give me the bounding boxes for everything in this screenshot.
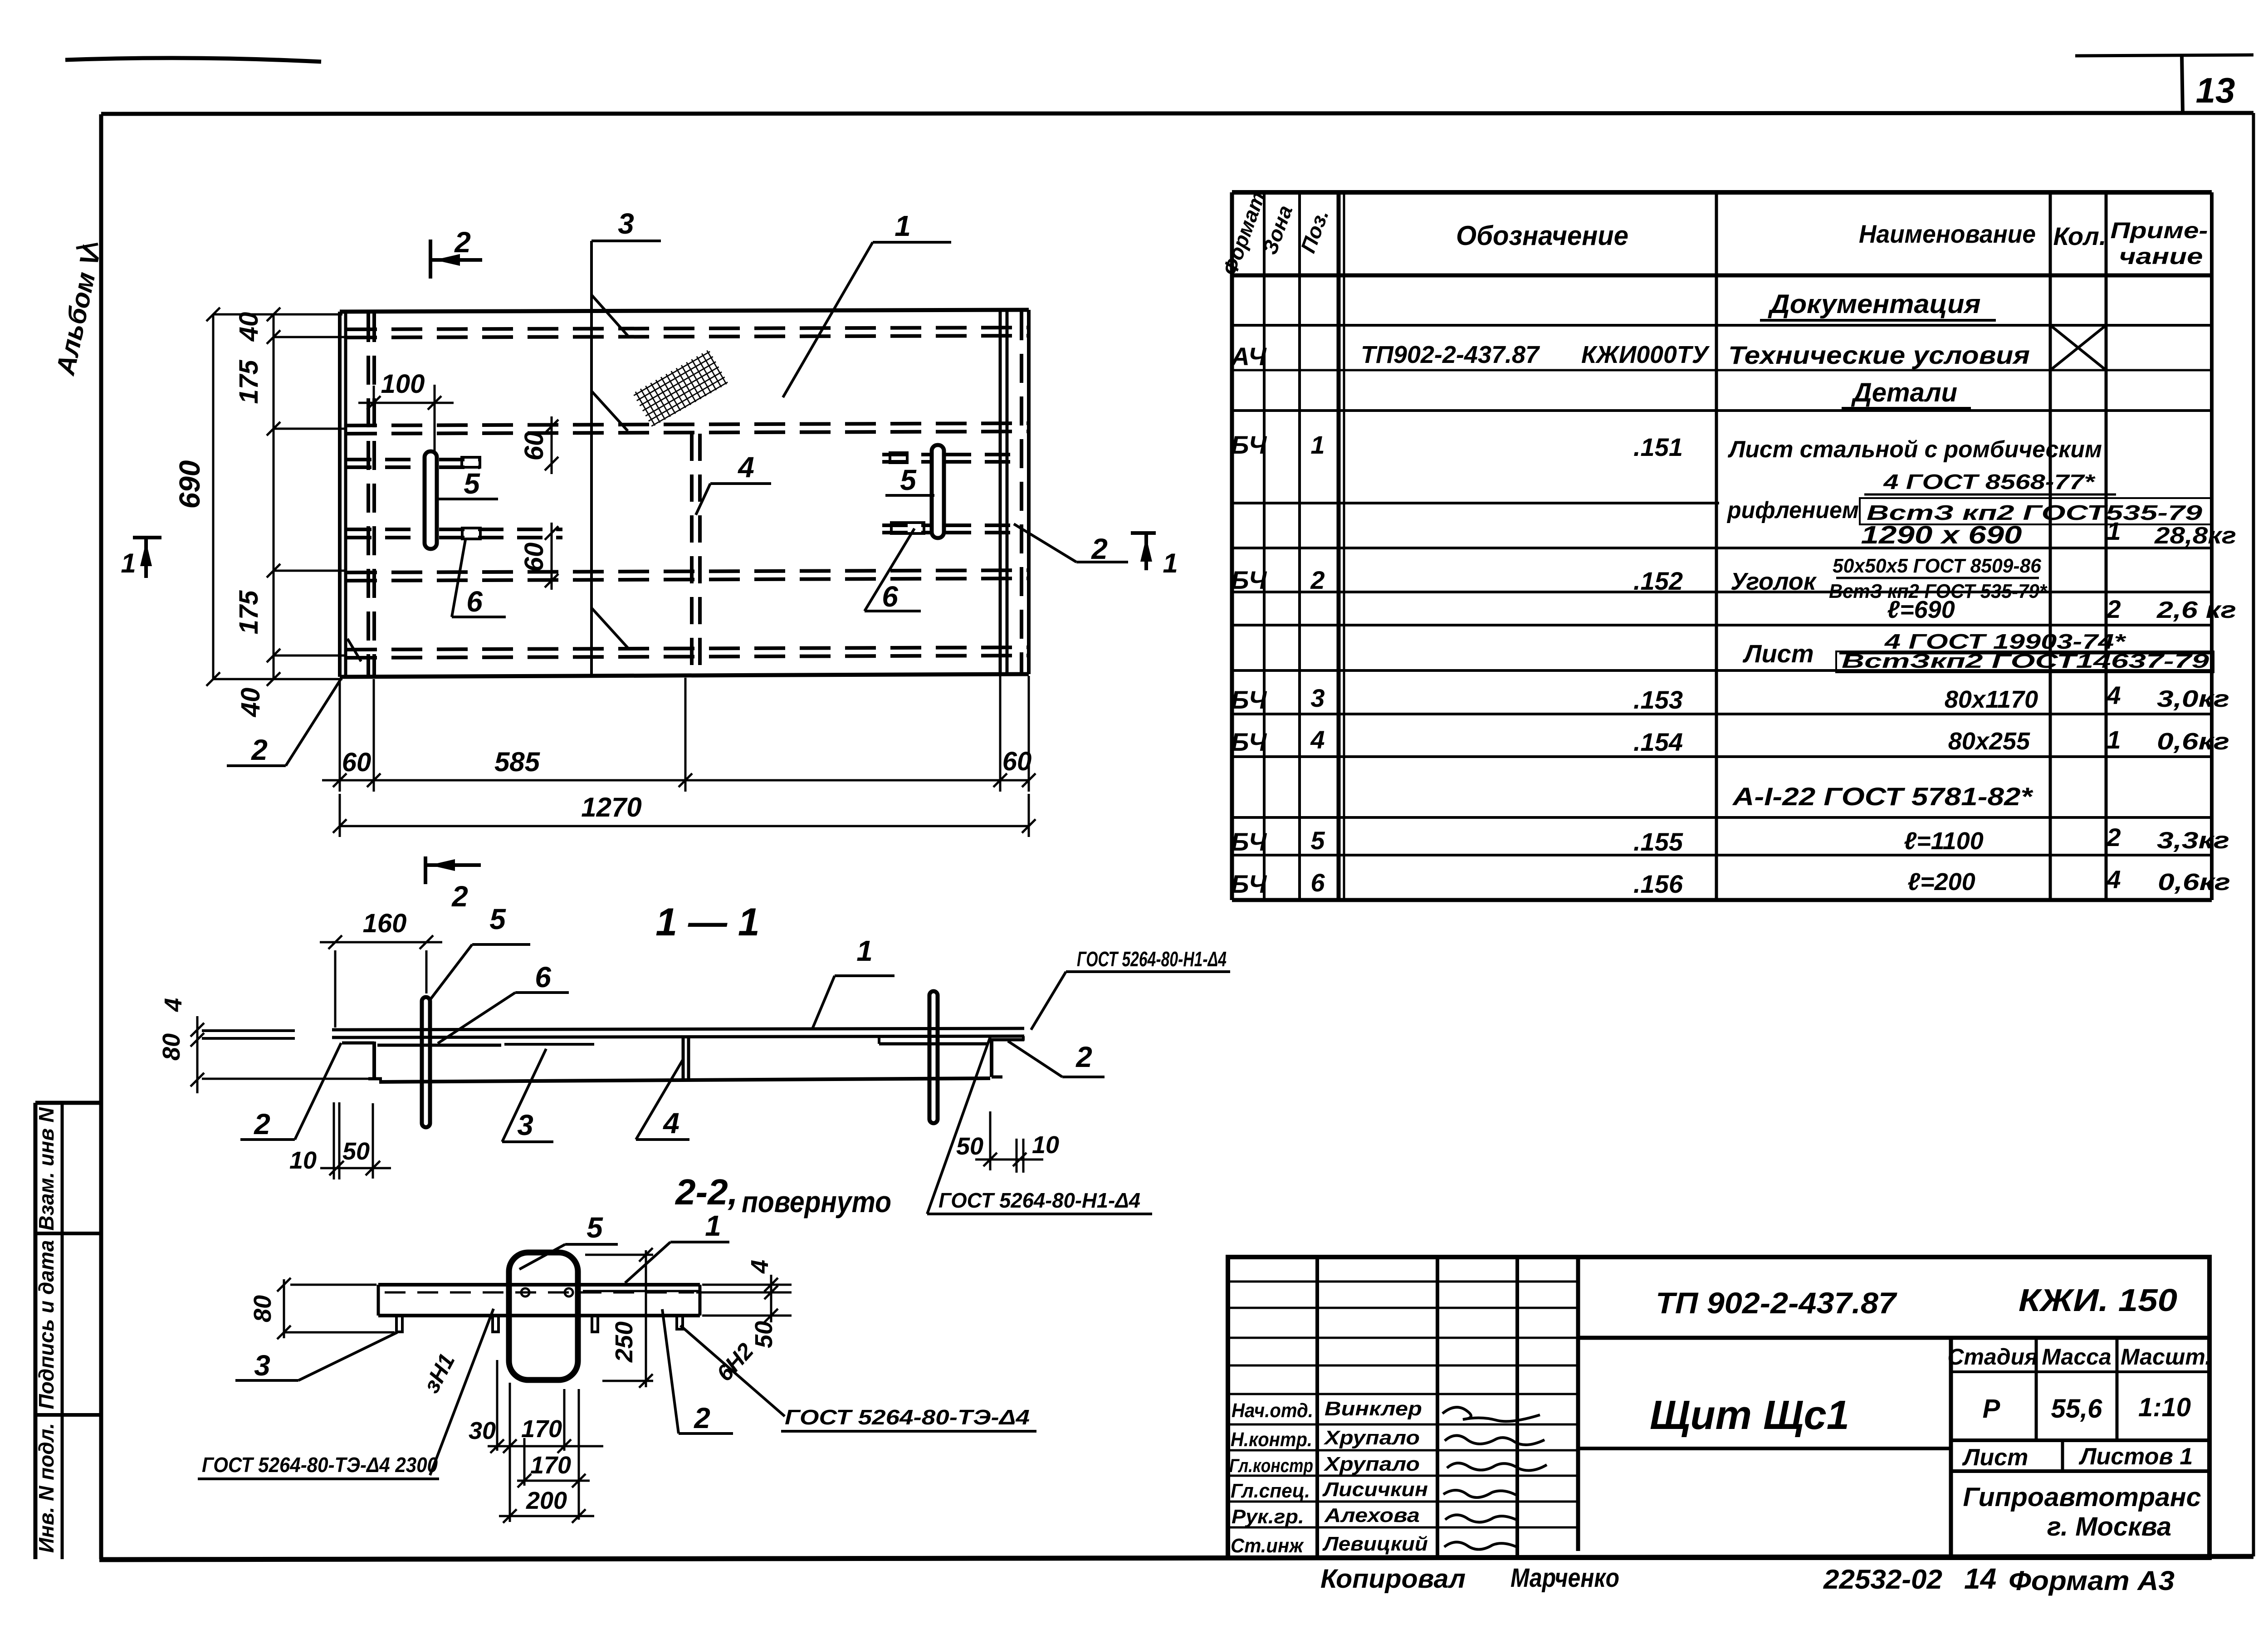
svg-text:40: 40 bbox=[234, 312, 264, 342]
svg-text:БЧ: БЧ bbox=[1231, 685, 1267, 714]
svg-text:ТП902-2-437.87: ТП902-2-437.87 bbox=[1361, 341, 1540, 368]
svg-text:Р: Р bbox=[1983, 1394, 2000, 1424]
svg-text:6: 6 bbox=[535, 961, 551, 993]
svg-text:2: 2 bbox=[1091, 533, 1108, 565]
svg-text:КЖИ000ТУ: КЖИ000ТУ bbox=[1581, 341, 1710, 368]
dim 250 (2-2) bbox=[585, 1248, 653, 1388]
dims 10/50 bottom-left (1-1) bbox=[320, 1102, 391, 1179]
svg-text:Технические условия: Технические условия bbox=[1728, 341, 2030, 369]
middle rib hidden (poz 4) bbox=[692, 434, 700, 675]
dims 4/50 right (2-2) bbox=[696, 1275, 792, 1322]
svg-text:Лист: Лист bbox=[1962, 1444, 2028, 1471]
svg-text:Лист: Лист bbox=[1742, 639, 1814, 668]
svg-text:10: 10 bbox=[289, 1147, 317, 1174]
svg-text:1: 1 bbox=[2107, 725, 2121, 754]
svg-text:1 — 1: 1 — 1 bbox=[655, 900, 759, 944]
lifting loop left (poz 5) bbox=[425, 451, 437, 549]
svg-text:ℓ=690: ℓ=690 bbox=[1887, 596, 1955, 623]
svg-text:5: 5 bbox=[900, 464, 917, 496]
svg-text:А-I-22 ГОСТ 5781-82*: А-I-22 ГОСТ 5781-82* bbox=[1732, 782, 2033, 811]
svg-text:2: 2 bbox=[2106, 823, 2121, 851]
svg-text:50: 50 bbox=[956, 1133, 983, 1160]
svg-text:.151: .151 bbox=[1633, 433, 1683, 461]
signatures bbox=[1442, 1407, 1547, 1549]
svg-text:80х1170: 80х1170 bbox=[1945, 686, 2038, 713]
loops in section (poz 5) bbox=[422, 997, 430, 1127]
svg-text:4: 4 bbox=[737, 451, 754, 484]
bottom dimensions 60 / 585 / 60 bbox=[322, 676, 1036, 792]
svg-text:1: 1 bbox=[2107, 517, 2121, 545]
svg-text:3,3кг: 3,3кг bbox=[2157, 827, 2229, 854]
svg-text:1: 1 bbox=[1310, 431, 1325, 459]
svg-text:Масса: Масса bbox=[2042, 1344, 2112, 1370]
dim 160 bbox=[320, 935, 442, 1027]
svg-text:Гл.спец.: Гл.спец. bbox=[1231, 1480, 1310, 1502]
svg-text:ГОСТ 5264-80-Н1-Δ4: ГОСТ 5264-80-Н1-Δ4 bbox=[1077, 947, 1227, 971]
svg-text:5: 5 bbox=[489, 903, 506, 935]
svg-text:Гипроавтотранс: Гипроавтотранс bbox=[1963, 1482, 2201, 1512]
svg-text:Рук.гр.: Рук.гр. bbox=[1232, 1506, 1304, 1528]
svg-text:Подпись и дата: Подпись и дата bbox=[34, 1240, 58, 1409]
svg-text:Левицкий: Левицкий bbox=[1322, 1533, 1428, 1555]
svg-text:3: 3 bbox=[1310, 684, 1325, 712]
section mark 2 top bbox=[430, 240, 482, 279]
left margin boxes bbox=[35, 1103, 101, 1559]
short dashed pairs near lifting loops bbox=[346, 455, 1017, 538]
svg-text:ℓ=200: ℓ=200 bbox=[1907, 868, 1975, 895]
svg-text:5: 5 bbox=[464, 467, 480, 500]
svg-text:1: 1 bbox=[705, 1209, 721, 1242]
svg-text:6: 6 bbox=[466, 585, 483, 618]
svg-text:13: 13 bbox=[2196, 70, 2235, 110]
svg-text:.156: .156 bbox=[1633, 870, 1683, 898]
svg-text:Хрупало: Хрупало bbox=[1323, 1453, 1420, 1475]
svg-text:4: 4 bbox=[2106, 681, 2121, 709]
svg-text:4: 4 bbox=[2106, 865, 2121, 894]
svg-text:Лист стальной с ромбическим: Лист стальной с ромбическим bbox=[1727, 436, 2102, 463]
svg-text:Масшт.: Масшт. bbox=[2121, 1344, 2211, 1370]
svg-text:10: 10 bbox=[1032, 1131, 1059, 1159]
svg-text:2: 2 bbox=[251, 734, 268, 766]
dimension 690 bbox=[206, 308, 342, 686]
svg-text:0,6кг: 0,6кг bbox=[2157, 729, 2229, 755]
svg-text:Нач.отд.: Нач.отд. bbox=[1232, 1399, 1313, 1422]
dims 50/10 bottom-right (1-1) bbox=[975, 1111, 1043, 1173]
svg-text:Листов 1: Листов 1 bbox=[2078, 1443, 2193, 1470]
svg-text:БЧ: БЧ bbox=[1231, 431, 1267, 459]
section mark 2 bottom bbox=[425, 856, 481, 884]
svg-text:3,0кг: 3,0кг bbox=[2157, 686, 2229, 712]
anchor tabs (poz 6) bbox=[462, 453, 924, 539]
svg-text:1: 1 bbox=[894, 210, 911, 242]
svg-text:Уголок: Уголок bbox=[1730, 568, 1817, 595]
svg-text:6: 6 bbox=[882, 580, 898, 613]
dimension 1270 bbox=[333, 794, 1036, 837]
tabs below bar bbox=[396, 1316, 683, 1332]
svg-text:3: 3 bbox=[618, 207, 634, 240]
top-left stray line bbox=[65, 58, 321, 62]
svg-text:30: 30 bbox=[469, 1417, 496, 1444]
svg-text:80: 80 bbox=[158, 1033, 185, 1061]
svg-text:80: 80 bbox=[249, 1295, 276, 1322]
svg-text:Ст.инж: Ст.инж bbox=[1231, 1535, 1304, 1557]
svg-text:1290 x 690: 1290 x 690 bbox=[1861, 520, 2022, 549]
svg-text:1: 1 bbox=[121, 548, 136, 578]
svg-text:Детали: Детали bbox=[1851, 378, 1957, 407]
dimension 100 bbox=[358, 385, 454, 451]
svg-text:5: 5 bbox=[587, 1211, 603, 1244]
svg-text:Взам. инв N: Взам. инв N bbox=[34, 1107, 58, 1230]
lifting loop right (poz 5) bbox=[932, 445, 944, 538]
svg-text:ℓ=1100: ℓ=1100 bbox=[1904, 827, 1984, 855]
svg-text:.153: .153 bbox=[1633, 685, 1683, 714]
svg-text:БЧ: БЧ bbox=[1231, 870, 1267, 898]
svg-text:Документация: Документация bbox=[1767, 289, 1980, 319]
svg-text:Лисичкин: Лисичкин bbox=[1322, 1478, 1428, 1501]
dimension chain 40/175/175/40 bbox=[267, 308, 346, 686]
crossed cell bbox=[2050, 325, 2106, 370]
svg-text:рифлением: рифлением bbox=[1726, 497, 1859, 523]
svg-text:БЧ: БЧ bbox=[1231, 827, 1267, 856]
page number box 13 bbox=[2075, 55, 2253, 113]
svg-text:2: 2 bbox=[1310, 566, 1325, 594]
dims below loop (2-2) bbox=[488, 1360, 603, 1523]
svg-text:Н.контр.: Н.контр. bbox=[1231, 1429, 1312, 1451]
svg-text:4: 4 bbox=[1310, 725, 1325, 754]
dim 80 left (2-2) bbox=[277, 1278, 395, 1339]
svg-text:100: 100 bbox=[381, 369, 425, 399]
svg-text:Формат А3: Формат А3 bbox=[2009, 1566, 2175, 1596]
svg-text:2: 2 bbox=[1075, 1041, 1092, 1073]
svg-text:200: 200 bbox=[526, 1487, 567, 1514]
svg-text:1:10: 1:10 bbox=[2138, 1393, 2191, 1422]
svg-text:Винклер: Винклер bbox=[1325, 1398, 1422, 1420]
svg-text:г. Москва: г. Москва bbox=[2047, 1512, 2171, 1541]
hidden edge dashed verticals bbox=[368, 311, 1022, 676]
svg-text:160: 160 bbox=[363, 909, 407, 938]
svg-text:50х50х5 ГОСТ 8509-86: 50х50х5 ГОСТ 8509-86 bbox=[1833, 555, 2042, 577]
svg-text:Стадия: Стадия bbox=[1947, 1344, 2038, 1370]
svg-text:Инв. N подл.: Инв. N подл. bbox=[34, 1423, 58, 1553]
svg-text:1: 1 bbox=[1163, 548, 1178, 578]
svg-text:50: 50 bbox=[750, 1321, 777, 1348]
svg-text:Гл.констр: Гл.констр bbox=[1229, 1455, 1313, 1476]
svg-text:4: 4 bbox=[160, 998, 187, 1012]
svg-text:14: 14 bbox=[1964, 1562, 1996, 1595]
svg-text:3: 3 bbox=[517, 1109, 533, 1141]
svg-text:60: 60 bbox=[342, 748, 371, 777]
svg-text:ГОСТ 5264-80-ТЭ-Δ4 2300: ГОСТ 5264-80-ТЭ-Δ4 2300 bbox=[202, 1453, 438, 1477]
svg-text:585: 585 bbox=[494, 747, 541, 777]
svg-text:2: 2 bbox=[694, 1402, 710, 1434]
svg-text:1: 1 bbox=[856, 934, 873, 967]
svg-text:БЧ: БЧ bbox=[1231, 566, 1267, 594]
svg-text:2,6 кг: 2,6 кг bbox=[2156, 597, 2236, 623]
svg-text:170: 170 bbox=[521, 1415, 562, 1443]
svg-text:Приме-: Приме- bbox=[2111, 218, 2208, 243]
svg-text:.155: .155 bbox=[1633, 827, 1683, 856]
svg-text:Щит Щс1: Щит Щс1 bbox=[1650, 1393, 1849, 1438]
section mark 1 right bbox=[1131, 533, 1156, 570]
svg-text:60: 60 bbox=[519, 431, 549, 461]
svg-text:4: 4 bbox=[746, 1260, 773, 1274]
svg-text:Наименование: Наименование bbox=[1859, 220, 2036, 248]
svg-text:3: 3 bbox=[254, 1349, 270, 1382]
plate in section bbox=[202, 1028, 1024, 1082]
svg-text:АЧ: АЧ bbox=[1230, 342, 1267, 371]
svg-text:690: 690 bbox=[173, 460, 206, 509]
table grid bbox=[1232, 192, 2213, 900]
svg-text:1270: 1270 bbox=[581, 792, 641, 822]
svg-text:2: 2 bbox=[454, 226, 471, 259]
svg-text:175: 175 bbox=[234, 590, 264, 635]
svg-text:ВстЗкп2 ГОСТ14637-79: ВстЗкп2 ГОСТ14637-79 bbox=[1842, 650, 2209, 672]
svg-text:2: 2 bbox=[254, 1108, 270, 1140]
svg-text:КЖИ. 150: КЖИ. 150 bbox=[2019, 1282, 2177, 1318]
svg-text:22532-02: 22532-02 bbox=[1823, 1564, 1942, 1595]
svg-text:50: 50 bbox=[342, 1138, 370, 1165]
loop big (poz 5) bbox=[509, 1252, 578, 1380]
svg-text:2: 2 bbox=[451, 880, 468, 913]
svg-text:0,6кг: 0,6кг bbox=[2158, 869, 2230, 895]
svg-text:60: 60 bbox=[1002, 747, 1032, 776]
svg-text:Хрупало: Хрупало bbox=[1323, 1427, 1420, 1449]
svg-text:250: 250 bbox=[611, 1321, 638, 1363]
bar (poz 3 rib with plate) bbox=[378, 1285, 700, 1316]
svg-text:ГОСТ 5264-80-Н1-Δ4: ГОСТ 5264-80-Н1-Δ4 bbox=[938, 1189, 1140, 1212]
svg-text:БЧ: БЧ bbox=[1231, 728, 1267, 756]
svg-text:повернуто: повернуто bbox=[742, 1185, 891, 1218]
svg-text:ГОСТ 5264-80-ТЭ-Δ4: ГОСТ 5264-80-ТЭ-Δ4 bbox=[785, 1405, 1030, 1429]
svg-text:55,6: 55,6 bbox=[2051, 1394, 2103, 1424]
svg-text:2: 2 bbox=[2106, 595, 2121, 623]
svg-text:ТП 902-2-437.87: ТП 902-2-437.87 bbox=[1656, 1286, 1897, 1320]
svg-text:175: 175 bbox=[234, 360, 264, 404]
svg-text:5: 5 bbox=[1310, 826, 1325, 855]
svg-text:Копировал: Копировал bbox=[1320, 1564, 1466, 1594]
svg-text:Алехова: Алехова bbox=[1324, 1504, 1420, 1526]
svg-text:Обозначение: Обозначение bbox=[1456, 220, 1628, 251]
plate outline bbox=[340, 310, 1029, 677]
svg-text:40: 40 bbox=[236, 688, 265, 718]
weld tick at lower left corner bbox=[347, 639, 361, 661]
dims 4 / 80 left (1-1) bbox=[191, 1016, 376, 1093]
svg-text:170: 170 bbox=[530, 1452, 571, 1479]
svg-text:.154: .154 bbox=[1633, 728, 1683, 756]
svg-text:4 ГОСТ 8568-77*: 4 ГОСТ 8568-77* bbox=[1883, 470, 2096, 494]
svg-text:4: 4 bbox=[662, 1107, 679, 1140]
svg-text:2-2,: 2-2, bbox=[675, 1172, 738, 1212]
svg-text:28,8кг: 28,8кг bbox=[2154, 523, 2236, 549]
svg-text:чание: чание bbox=[2119, 244, 2203, 269]
svg-text:Марченко: Марченко bbox=[1510, 1563, 1619, 1593]
svg-text:80х255: 80х255 bbox=[1948, 728, 2030, 755]
svg-text:6: 6 bbox=[1310, 868, 1325, 897]
svg-text:Кол.: Кол. bbox=[2053, 222, 2107, 250]
riffled sheet hatch patch (poz 1) bbox=[632, 349, 728, 427]
section mark 1 left bbox=[133, 538, 161, 578]
dimensions 60/60 middle bbox=[545, 416, 558, 590]
svg-text:60: 60 bbox=[519, 543, 549, 572]
svg-text:.152: .152 bbox=[1633, 567, 1683, 595]
hidden edge dashed horizontal pairs bbox=[346, 328, 1028, 658]
